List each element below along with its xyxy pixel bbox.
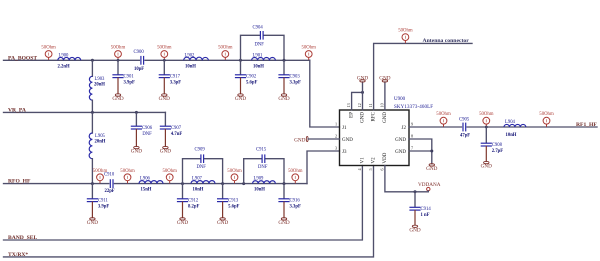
svg-text:C903: C903 — [290, 74, 301, 79]
svg-text:12: 12 — [357, 103, 362, 107]
svg-text:6: 6 — [379, 168, 384, 170]
power port VDDANA — [418, 182, 441, 192]
svg-text:10nH: 10nH — [254, 188, 265, 193]
svg-text:8: 8 — [411, 134, 413, 139]
inductor L907 10nH — [191, 177, 215, 193]
svg-text:10nH: 10nH — [506, 133, 517, 138]
svg-text:3.3pF: 3.3pF — [290, 80, 301, 85]
node C912/C909 left junction — [181, 182, 184, 185]
node EP/GND12 junction — [361, 91, 364, 94]
port P1 50Ohm on PA_BOOST — [41, 46, 56, 61]
svg-text:C906: C906 — [142, 126, 153, 131]
svg-text:50Ohm: 50Ohm — [398, 29, 413, 34]
ground net label at pin 2 left — [294, 136, 339, 143]
svg-text:10nH: 10nH — [185, 64, 196, 69]
node pin7/pin8 junction — [430, 150, 433, 153]
wire pin12 to GND — [362, 82, 364, 110]
svg-text:GND: GND — [87, 220, 98, 226]
svg-text:5.6pF: 5.6pF — [228, 204, 239, 209]
svg-text:GND: GND — [112, 96, 123, 102]
inductor L909 10nH — [252, 177, 275, 193]
svg-text:GND: GND — [160, 149, 171, 155]
svg-text:C913: C913 — [228, 198, 239, 203]
inductor L900 2.2nH — [58, 53, 81, 69]
svg-text:50Ohm: 50Ohm — [301, 46, 316, 51]
node C901 junction — [117, 59, 120, 62]
pin 10 GND label top — [379, 103, 388, 123]
svg-text:50Ohm: 50Ohm — [120, 169, 135, 174]
svg-text:50Ohm: 50Ohm — [479, 112, 494, 117]
svg-text:50Ohm: 50Ohm — [288, 169, 303, 174]
svg-text:RFO_HF: RFO_HF — [8, 179, 31, 185]
svg-text:GND: GND — [131, 149, 142, 155]
ground below C902 — [235, 94, 246, 102]
svg-text:4: 4 — [357, 168, 362, 171]
svg-text:8.2pF: 8.2pF — [188, 204, 199, 209]
svg-text:DNF: DNF — [142, 132, 152, 137]
pin 1 J1 label — [335, 122, 347, 132]
capacitor C911 3.9pF — [87, 184, 110, 218]
svg-text:GND: GND — [383, 112, 388, 123]
svg-text:GND: GND — [278, 220, 289, 226]
svg-text:3.9pF: 3.9pF — [124, 80, 135, 85]
svg-text:22pF: 22pF — [105, 189, 115, 194]
svg-text:L903: L903 — [95, 77, 106, 82]
svg-text:15nH: 15nH — [141, 188, 152, 193]
ground below C911 — [87, 218, 98, 226]
port P3 50Ohm at C917 — [157, 46, 172, 61]
wire BAND_SEL — [4, 166, 363, 241]
svg-text:50Ohm: 50Ohm — [41, 46, 56, 51]
wire TX/RX* — [4, 166, 374, 257]
svg-text:SKY13373-460LF: SKY13373-460LF — [394, 105, 433, 110]
pin 5 V2 label bottom — [368, 157, 377, 171]
svg-text:13: 13 — [346, 103, 351, 107]
svg-text:L901: L901 — [253, 53, 264, 58]
pin 4 V1 label bottom — [357, 157, 366, 171]
node C915 left junction — [242, 182, 245, 185]
node row1/L903 junction — [91, 59, 94, 62]
wire VR_PA row2 main — [4, 111, 166, 113]
capacitor C905 47pF series — [459, 118, 470, 139]
svg-text:50Ohm: 50Ohm — [539, 112, 554, 117]
svg-text:GND: GND — [235, 96, 246, 102]
node C916/C915 right junction — [283, 182, 286, 185]
ground below C907 — [160, 146, 171, 154]
port P10 50Ohm at row3 corner — [288, 169, 303, 184]
svg-text:5.6pF: 5.6pF — [246, 80, 257, 85]
svg-text:50Ohm: 50Ohm — [111, 46, 126, 51]
svg-text:Antenna connector: Antenna connector — [423, 38, 470, 44]
svg-text:J2: J2 — [402, 126, 407, 131]
svg-text:GND: GND — [379, 75, 390, 81]
svg-text:3.3pF: 3.3pF — [290, 204, 301, 209]
svg-text:10nH: 10nH — [253, 64, 264, 69]
node C913/C909 right junction — [221, 182, 224, 185]
svg-text:3.3pF: 3.3pF — [170, 80, 181, 85]
capacitor C906 DNF — [131, 112, 153, 146]
node C917 junction — [163, 59, 166, 62]
svg-text:DNF: DNF — [258, 165, 268, 170]
pin 7 GND label right — [395, 146, 413, 156]
svg-text:C902: C902 — [246, 74, 257, 79]
port P13 50Ohm at C908 — [479, 112, 494, 127]
pin 9 J2 label — [402, 122, 414, 132]
inductor L905 20nH vertical — [89, 112, 106, 183]
capacitor C901 3.9pF — [112, 60, 135, 93]
capacitor C912 8.2pF — [177, 184, 200, 218]
capacitor C900 10pF series — [134, 50, 145, 72]
svg-text:20nH: 20nH — [94, 83, 105, 88]
svg-text:2: 2 — [335, 134, 337, 139]
svg-text:50Ohm: 50Ohm — [162, 169, 177, 174]
capacitor C916 3.3pF — [278, 184, 301, 218]
svg-text:9: 9 — [411, 122, 413, 127]
svg-text:VDDANA: VDDANA — [418, 182, 441, 188]
wire row1 corner down to pin J1 — [310, 60, 340, 127]
wire J2 pin9 output row — [409, 126, 597, 128]
ground above pin 12 — [357, 75, 368, 82]
svg-text:10: 10 — [379, 103, 384, 107]
svg-text:3: 3 — [335, 146, 337, 151]
svg-text:GND: GND — [294, 137, 305, 143]
capacitor C917 3.3pF — [159, 60, 182, 93]
pin 3 J3 label — [335, 146, 347, 156]
svg-text:3.9pF: 3.9pF — [98, 204, 109, 209]
capacitor C902 5.6pF — [235, 60, 258, 93]
svg-text:V2: V2 — [372, 157, 377, 164]
capacitor C914 1nF — [409, 192, 431, 225]
svg-text:5: 5 — [368, 168, 373, 170]
svg-text:C910: C910 — [104, 172, 115, 177]
wire pin10 to GND — [384, 82, 386, 110]
wire RFO_HF row3 main — [4, 183, 308, 185]
ground below pins 7/8 — [426, 164, 437, 172]
capacitor C904 DNF bypass branch — [241, 26, 285, 61]
svg-text:L909: L909 — [254, 177, 265, 182]
svg-text:50Ohm: 50Ohm — [227, 169, 242, 174]
svg-text:50Ohm: 50Ohm — [218, 46, 233, 51]
svg-text:DNF: DNF — [255, 43, 265, 48]
node C902/C904 left junction — [239, 59, 242, 62]
svg-text:C911: C911 — [98, 198, 109, 203]
svg-text:10nH: 10nH — [193, 188, 204, 193]
svg-text:10pF: 10pF — [134, 67, 144, 72]
port P14 50Ohm at RF1_HF — [539, 112, 554, 127]
svg-text:7: 7 — [411, 146, 413, 151]
svg-text:20nH: 20nH — [95, 140, 106, 145]
svg-text:C905: C905 — [459, 118, 470, 123]
svg-text:J1: J1 — [342, 126, 347, 131]
svg-text:GND: GND — [159, 96, 170, 102]
inductor L906 15nH — [139, 177, 163, 193]
svg-text:50Ohm: 50Ohm — [436, 112, 451, 117]
svg-text:C915: C915 — [256, 147, 267, 152]
pin 11 RFC label top — [368, 103, 377, 121]
svg-text:1: 1 — [335, 122, 337, 127]
wire RFC pin11 to antenna line — [374, 43, 472, 110]
port P5 50Ohm at row1 corner — [301, 46, 316, 61]
svg-text:EP: EP — [350, 112, 355, 118]
pin 8 GND label right — [395, 134, 413, 144]
svg-text:PA_BOOST: PA_BOOST — [8, 55, 37, 61]
svg-text:C904: C904 — [253, 26, 264, 31]
capacitor C915 DNF bypass branch — [244, 147, 284, 183]
capacitor C908 2.7pF — [481, 127, 504, 161]
port P2 50Ohm at C901 — [111, 46, 126, 61]
svg-text:C900: C900 — [134, 50, 145, 55]
ground below C903 — [278, 94, 289, 102]
svg-text:J3: J3 — [342, 150, 347, 155]
wire VDD pin6 to VDDANA — [385, 166, 427, 192]
svg-text:4.7nF: 4.7nF — [171, 132, 182, 137]
svg-text:GND: GND — [395, 138, 406, 143]
svg-text:GND: GND — [361, 112, 366, 123]
svg-text:RF1_HF: RF1_HF — [576, 122, 597, 128]
wire EP pin13 jog to pin12 — [352, 92, 363, 110]
capacitor C909 DNF bypass branch — [183, 147, 223, 183]
node C914 junction — [414, 190, 417, 193]
svg-text:C912: C912 — [188, 198, 199, 203]
svg-text:C916: C916 — [290, 198, 301, 203]
node C906 junction — [135, 111, 138, 114]
svg-text:L900: L900 — [59, 53, 70, 58]
wire row3 corner up to pin J3 — [307, 151, 340, 184]
node C908 junction — [485, 126, 488, 129]
svg-text:GND: GND — [278, 96, 289, 102]
svg-text:GND: GND — [342, 138, 353, 143]
inductor L904 10nH — [504, 120, 526, 138]
svg-text:V1: V1 — [361, 157, 366, 164]
node row3/L905 junction — [91, 182, 94, 185]
svg-text:1 nF: 1 nF — [421, 213, 430, 218]
inductor L903 20nH vertical — [89, 60, 105, 112]
svg-text:GND: GND — [217, 220, 228, 226]
capacitor C907 4.7nF — [160, 112, 183, 146]
port P9 50Ohm mid row3 — [227, 169, 242, 184]
svg-text:BAND_SEL: BAND_SEL — [8, 235, 37, 241]
svg-text:U900: U900 — [394, 97, 406, 102]
node row2/L905 junction — [91, 111, 94, 114]
svg-text:C908: C908 — [492, 143, 503, 148]
wire PA_BOOST row1 main — [4, 59, 310, 61]
port P11 50Ohm antenna — [398, 29, 413, 43]
svg-text:GND: GND — [395, 150, 406, 155]
port P8 50Ohm after L906 — [162, 169, 177, 184]
op IC U900 SKY13373-460LF body — [340, 110, 410, 166]
svg-text:GND: GND — [177, 220, 188, 226]
svg-text:RFC: RFC — [372, 111, 377, 121]
ground below C913 — [217, 218, 228, 226]
svg-text:VDD: VDD — [383, 152, 388, 163]
svg-text:2.2nH: 2.2nH — [58, 64, 70, 69]
svg-text:C901: C901 — [124, 74, 135, 79]
node C903/C904 right junction — [283, 59, 286, 62]
inductor L902 10nH — [184, 53, 209, 69]
svg-text:C909: C909 — [195, 147, 206, 152]
ground below C912 — [177, 218, 188, 226]
pin 2 GND label left — [335, 134, 353, 144]
inductor L901 10nH — [252, 53, 276, 69]
svg-text:GND: GND — [357, 75, 368, 81]
svg-text:VR_PA: VR_PA — [8, 108, 26, 114]
wire pin7 GND joins — [409, 150, 432, 152]
port P7 50Ohm after C910 — [120, 169, 135, 184]
capacitor C913 5.6pF — [217, 184, 240, 218]
svg-text:47pF: 47pF — [460, 134, 470, 139]
ground above pin 10 — [379, 75, 390, 82]
pin 12 GND label top — [357, 103, 366, 123]
svg-text:C917: C917 — [170, 74, 181, 79]
svg-text:L904: L904 — [505, 120, 516, 125]
ground below C901 — [112, 94, 123, 102]
capacitor C910 22pF series — [104, 172, 115, 194]
wire pin8 GND to ground — [409, 139, 432, 164]
ground below C908 — [481, 161, 492, 169]
svg-text:L906: L906 — [140, 177, 151, 182]
port P4 50Ohm mid row1 — [218, 46, 233, 61]
svg-text:2.7pF: 2.7pF — [492, 149, 503, 154]
pin 13 EP label top — [346, 103, 355, 118]
svg-text:C907: C907 — [171, 126, 182, 131]
ground below C914 — [409, 225, 420, 233]
svg-text:50Ohm: 50Ohm — [157, 46, 172, 51]
svg-text:GND: GND — [481, 164, 492, 170]
svg-text:L907: L907 — [192, 177, 203, 182]
svg-text:L905: L905 — [95, 134, 106, 139]
ground below C906 — [131, 146, 142, 154]
svg-text:GND: GND — [409, 227, 420, 233]
svg-text:L902: L902 — [185, 53, 196, 58]
ground below C916 — [278, 218, 289, 226]
port P12 50Ohm at J2 — [436, 112, 451, 127]
svg-text:TX/RX*: TX/RX* — [8, 252, 28, 258]
svg-text:GND: GND — [426, 166, 437, 172]
capacitor C903 3.3pF — [278, 60, 301, 93]
svg-text:C914: C914 — [421, 207, 432, 212]
svg-text:11: 11 — [368, 103, 373, 107]
port P6 50Ohm at C911 — [93, 169, 108, 184]
svg-text:DNF: DNF — [197, 165, 207, 170]
ground below C917 — [159, 94, 170, 102]
pin 6 VDD label bottom — [379, 152, 388, 170]
